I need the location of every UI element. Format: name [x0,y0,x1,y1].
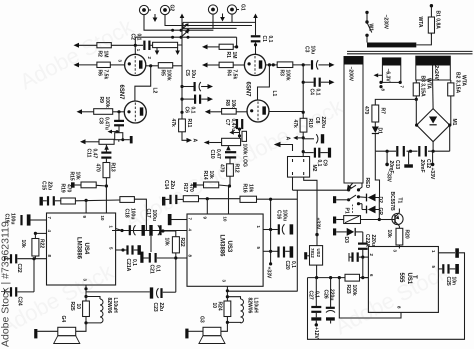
svg-text:7,5k: 7,5k [232,70,238,80]
arrow left at node [293,136,303,140]
ground plate center rail [404,151,413,168]
resistor R5 [158,63,172,68]
svg-text:100k: 100k [166,70,172,81]
svg-text:C15: C15 [41,181,47,190]
jack G2a [139,5,151,14]
svg-text:100k: 100k [104,97,110,108]
svg-text:US4: US4 [83,243,89,255]
fuse B1 [428,4,434,35]
resistor R11 [179,119,186,132]
pin8 row with C22 [5,254,47,263]
plate left of D3 [333,228,347,235]
wire C4 row [303,81,314,83]
inductor Lb parallel [227,297,243,323]
wire R8 to grid [236,111,247,113]
svg-text:100u: 100u [282,210,288,221]
svg-text:20mF: 20mF [419,160,425,173]
resistor R2 [97,43,111,48]
trimmer right channel [222,138,241,145]
svg-text:M2: M2 [311,165,317,172]
svg-text:C6: C6 [184,107,190,114]
bridge rectifier M1 [417,109,450,142]
capacitor C2 [144,41,152,50]
selector wire row B [135,36,236,38]
plate left of R14 [193,182,197,187]
wire R16 right [257,199,298,229]
arrow from 200V box down [347,183,353,190]
svg-text:10u: 10u [190,70,196,79]
wire R12 to node [229,176,231,214]
wire B3 to bridge left [415,99,417,125]
wire V2b anode to column [269,111,303,113]
wire trimmer down to C11 [106,140,118,152]
svg-text:+33V: +33V [429,168,435,180]
svg-text:0,47: 0,47 [215,149,221,159]
arrow left C7 [229,130,239,134]
svg-text:47k: 47k [170,119,176,128]
capacitor C1 [251,36,261,41]
plate left of US2 [304,252,309,259]
wire to speaker G3 [221,322,228,331]
svg-text:WTA: WTA [426,78,432,89]
wire R5 to column [173,65,182,67]
svg-text:10: 10 [211,303,217,309]
svg-text:B1 0,8A: B1 0,8A [435,11,441,30]
plate left of contacts [333,196,349,203]
pin1 US3 wire [263,229,278,231]
pin2 wire and cap [349,252,368,261]
svg-text:R1: R1 [225,52,231,59]
svg-text:C27: C27 [308,291,314,300]
capacitor C6 [195,95,200,104]
wire R13 to node [105,178,107,186]
arrow input R8 row [205,109,222,114]
pin4 wire [35,232,46,234]
svg-text:470: 470 [66,184,72,193]
wire node down to C8 [118,112,120,120]
wire C5 row [182,86,194,88]
svg-text:22u: 22u [47,182,53,191]
wire V1b to V2b via L1 [258,65,270,100]
resistor R16 [240,196,257,202]
svg-text:0,1: 0,1 [190,107,196,114]
fuse B2 [448,80,454,110]
svg-text:10: 10 [100,216,105,221]
ground plate left of G3 [185,329,203,339]
svg-text:L2: L2 [152,88,158,94]
row right: plate bar [162,197,165,206]
svg-text:C22: C22 [16,264,22,273]
svg-text:R16: R16 [242,184,248,193]
resistor R14 [204,182,219,188]
bus line 1 [183,21,256,23]
wire V1a to V2a via L2 [135,66,151,102]
svg-text:0,47: 0,47 [92,149,98,159]
svg-text:0,1: 0,1 [314,291,320,298]
capacitor C24 [5,287,35,296]
wire pot to column, up arrow [178,18,182,46]
pin3 wire down [85,285,87,297]
node C7 column [238,128,241,131]
svg-text:10k: 10k [20,240,26,249]
svg-text:R3: R3 [279,70,285,77]
relay contact set [347,185,360,213]
svg-text:0,47u: 0,47u [230,119,236,132]
wire R3 to node [293,64,311,66]
capacitor C23 22u [150,287,176,298]
arrow out C6 [201,97,213,102]
svg-text:6SN7: 6SN7 [118,85,124,101]
wire R10 down [302,132,304,156]
wire selector to C2 node [134,37,136,45]
supply rail [375,125,449,151]
pot 100k LOG body [242,131,247,141]
svg-text:C8: C8 [98,118,104,125]
arrow out C4 [321,80,335,85]
svg-text:C21: C21 [149,265,155,274]
selector wire row A [173,29,214,31]
wire P1 to column [361,218,381,221]
svg-text:R9: R9 [98,97,104,104]
pin8 wire [339,278,401,318]
svg-text:6SN7: 6SN7 [245,82,251,98]
tube V2a (left channel, 6SN7 lower) [124,101,146,123]
wire node to R7 [375,99,416,105]
svg-text:R8: R8 [224,100,230,107]
capacitor C16 100u [279,224,293,234]
wire jack G2b to bus [165,15,183,26]
wire R4 to tube [233,64,244,66]
wire C1 to tube node [255,42,257,54]
svg-text:C5: C5 [184,70,190,77]
svg-text:T1: T1 [397,198,403,204]
svg-text:470: 470 [363,106,369,115]
svg-text:C22A: C22A [364,234,370,247]
tube V1a (left channel, 6SN7 upper) [125,54,146,75]
svg-text:0,1: 0,1 [131,259,137,266]
wire pin2 to pin6 [362,257,364,278]
svg-text:7,5k: 7,5k [103,70,109,80]
svg-text:R24: R24 [217,302,223,311]
wire column x303 down [302,65,304,118]
outer loop wire [308,253,465,339]
svg-text:~2x24V: ~2x24V [433,63,439,81]
svg-text:10k: 10k [164,238,170,247]
resistor R25 [83,297,90,323]
capacitor C10 0,47 [225,152,236,157]
wire R14 to node [219,185,230,186]
svg-text:+33V: +33V [315,218,321,230]
wire R18 to column [134,199,146,230]
resistor R17 [183,196,198,202]
svg-text:R23: R23 [345,285,351,294]
wire R23 to pin6 [360,277,369,279]
svg-text:0,1: 0,1 [267,36,273,43]
tube V2b (right channel lower) [247,100,269,122]
wire R17 to node [199,198,241,200]
resistor R18 feedback [120,197,134,203]
wire R15 to node [96,184,106,187]
resistor R19 [61,198,76,204]
svg-text:R7: R7 [380,108,386,115]
arrow out C5 [201,84,213,89]
wire pin3 to C23 [86,291,150,293]
node C2 [134,44,137,47]
svg-text:+33V: +33V [266,267,272,279]
relay coil P1 [344,216,361,224]
svg-text:B3 3,15A: B3 3,15A [420,76,426,98]
resistor R12 [227,164,234,176]
bus left verticals [182,22,184,28]
tube V1b (right channel upper) [244,54,265,75]
svg-text:L1: L1 [271,91,277,97]
svg-text:10: 10 [223,217,228,222]
bridge right to B2 [450,110,451,125]
capacitor C5 10u [195,82,201,91]
capacitor C7 0,47u [237,119,242,129]
ground arrow 6,3V [374,73,383,77]
svg-text:220u: 220u [329,289,335,300]
inductor L parallel [86,297,103,324]
pot arrow down 1 [155,48,160,55]
wire channel column x297 [296,190,298,291]
svg-text:G4: G4 [60,316,66,323]
wire anode to node [146,65,159,67]
svg-text:~200V: ~200V [348,67,354,82]
resistor R3 [277,62,293,68]
wire C17 plate to C21 [150,236,152,252]
bridge bottom to rail [432,142,434,152]
wire jack G1a down [212,14,214,28]
selector contacts [171,29,189,39]
timer 555 US1 box [368,247,438,313]
LED D2 green [359,204,376,214]
svg-text:C11: C11 [86,149,92,158]
svg-text:470: 470 [95,164,101,173]
svg-text:LM3886: LM3886 [76,237,82,260]
wire jack G1b down [231,14,233,22]
arrow input R1 [202,44,219,49]
svg-text:C7: C7 [224,119,230,126]
jack G1a [208,5,217,14]
wire C10 to R12 [229,158,231,163]
wire R20 to 555 pin3 [398,245,400,249]
speaker G4 [54,327,80,343]
svg-text:R5: R5 [160,70,166,77]
pin7 wire plate [168,214,187,225]
diode D1 [372,122,379,151]
resistor R23 [345,274,360,281]
pin5 wire and C20 [263,246,293,257]
arrow up under hum resistor [104,145,109,150]
wire R22b bottom down to C23 [175,258,177,292]
wire C6 row [182,98,194,100]
wire node to pin9 US3 [206,199,208,214]
arrow up under C10 [226,145,231,150]
capacitor C13 20mF [397,146,404,157]
svg-text:A: A [192,139,198,143]
op-amp module US4 LM3886 [47,213,116,285]
resistor R7 [372,105,379,122]
capacitor C8 220u [303,134,324,143]
resistor R24 [224,297,231,323]
wire R6 to tube grid [110,64,124,66]
svg-text:0,1: 0,1 [290,261,296,268]
svg-text:L10uH: L10uH [253,298,259,314]
resistor R9 [94,109,113,115]
capacitor C14 22u [165,195,183,204]
svg-text:220u: 220u [370,235,376,246]
resistor R8 [222,109,237,115]
bus line 3 [183,27,237,29]
capacitor C3 10u [312,60,318,69]
wire US2 to +12 rail [316,265,318,278]
svg-text:R4: R4 [226,70,232,77]
wire pin1-pin5 link [270,230,272,264]
plate left of R15 [71,182,75,187]
row left: plate bar [40,197,43,206]
wire R9 to grid [113,111,125,113]
pin5 wire and C25 [438,264,459,274]
svg-text:R11: R11 [186,119,192,128]
svg-text:GR: GR [377,208,383,216]
svg-text:WTA: WTA [461,75,467,86]
svg-text:US2: US2 [316,249,321,258]
svg-text:G1: G1 [240,4,246,11]
arrow left at C8 node [108,130,118,134]
svg-text:0,1: 0,1 [315,89,321,96]
transformer primary winding [367,43,416,48]
svg-text:1M: 1M [231,52,237,59]
arrow input R4 row [202,63,219,68]
capacitor C27 [311,278,321,327]
wire M2 down to relay feed [292,177,294,190]
resistor R10 [300,118,307,132]
capacitor C15 22u [43,196,61,205]
node and plate right of trimmer [121,138,124,141]
svg-text:B2 3,15A: B2 3,15A [455,72,461,94]
op-amp module US3 LM3886 [187,214,263,286]
jack G2b [160,5,169,14]
node under C6 column [180,85,183,88]
svg-text:C1: C1 [261,36,267,43]
capacitor C4 [315,78,320,87]
svg-text:82W06: 82W06 [247,298,253,314]
wire node to pin10 [105,186,107,213]
resistor R13 [103,163,110,178]
svg-text:R6: R6 [97,70,103,77]
capacitor C18 100u [112,225,187,236]
svg-text:R15: R15 [69,172,75,181]
LED D red [359,194,376,202]
svg-text:100k: 100k [285,70,291,81]
svg-text:C4: C4 [309,89,315,96]
svg-text:22u: 22u [158,303,164,312]
wire -33 stub [385,151,389,166]
pin1 US4 wire [116,229,122,231]
pin1 wire [438,248,459,257]
transistor T1 BC557B [379,209,403,229]
ground arrow G2 [153,14,158,22]
trimmer box [115,133,123,140]
bus line 2 [183,25,252,27]
svg-text:10k: 10k [75,172,81,181]
svg-text:10u: 10u [310,46,316,55]
pin5 US4 wire and C21A [116,245,141,255]
capacitor C22A 220u [358,232,368,257]
wire D1 column down to LEDs [375,151,379,197]
svg-text:P1: P1 [344,208,350,214]
capacitor C9 0,1 [303,148,331,158]
secondary 200V winding box [344,57,363,184]
svg-text:C16: C16 [276,210,282,219]
arrow left trimmer [204,140,222,144]
wire C11 to R13 [105,159,107,163]
svg-text:C3: C3 [304,46,310,53]
ground plate left of G4 [34,329,58,338]
svg-text:C26: C26 [323,290,329,299]
svg-text:C10: C10 [209,150,215,159]
svg-text:7812: 7812 [310,248,315,258]
wire relay feed horizontal [293,189,349,191]
svg-text:BC557B: BC557B [389,192,395,212]
secondary 2x24V winding [416,56,451,80]
wire LED cathodes to column [376,198,380,220]
svg-text:C13: C13 [394,160,400,169]
svg-text:W1: W1 [368,24,374,32]
wire M2 to +33V [304,177,317,234]
+33V stub [431,151,435,166]
arrow input L [74,43,97,48]
svg-text:10k: 10k [248,184,254,193]
wire 200V box corner to contact [359,183,363,190]
arrow input R6 row [74,62,97,67]
capacitor C17 100u [149,225,160,236]
svg-text:10k: 10k [230,100,236,109]
svg-text:RED: RED [364,178,370,189]
svg-text:C20: C20 [284,261,290,270]
wire down to C24 [33,259,35,292]
svg-text:10: 10 [75,304,81,310]
wire C7 node links [239,129,241,138]
wire W1 to primary [366,35,368,42]
wire row B down to R1 node [236,37,238,47]
resistor R4 [219,62,233,67]
selector lever 1 [181,23,189,30]
+33V feed to US2 [315,233,318,246]
svg-text:10k: 10k [386,230,392,239]
arrow input R9 row [77,109,94,114]
transformer core [347,50,473,52]
selector lever 2 [181,30,189,37]
svg-text:100k: 100k [351,285,357,296]
pot arrow down 2 [175,48,180,55]
wire primary to fuse B1 [416,33,431,45]
svg-text:R22: R22 [179,238,185,247]
capacitor C11 0,47 [101,153,111,158]
svg-text:M1: M1 [451,119,457,126]
heater pins 7 8 [379,81,401,88]
svg-text:~-33V: ~-33V [385,169,391,183]
svg-text:~6,3V: ~6,3V [385,69,391,83]
wire pin3 to relay [227,290,297,292]
resistor R22 [32,233,39,258]
svg-text:R20: R20 [404,230,410,239]
svg-text:C23: C23 [152,303,158,312]
wire column 182 down to R11 [181,99,183,119]
speaker G3 [199,327,225,343]
svg-text:0,47u: 0,47u [104,117,110,130]
